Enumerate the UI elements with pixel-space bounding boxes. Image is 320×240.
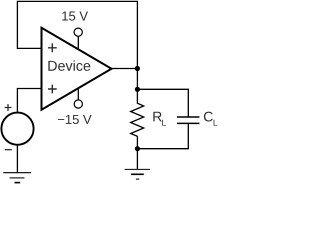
wire noninverting input	[17, 89, 41, 113]
wire capacitor to node C	[137, 124, 188, 149]
ground left	[3, 173, 31, 183]
wire node B to capacitor	[137, 89, 188, 116]
capacitor CL	[177, 112, 217, 126]
pin + top input label	[48, 43, 57, 52]
wire node C to ground	[136, 149, 138, 170]
op-amp Device	[42, 28, 112, 110]
ground right	[125, 169, 150, 179]
node A output junction	[135, 66, 140, 71]
wire output	[112, 68, 138, 70]
pin + bottom input label	[48, 85, 57, 94]
power +15V terminal	[62, 12, 88, 49]
power -15V terminal	[58, 88, 92, 124]
wire node A to node B	[136, 69, 138, 90]
voltage source VIN	[1, 104, 33, 150]
node B load junction	[135, 87, 140, 92]
wire source to ground	[16, 145, 18, 173]
resistor RL	[131, 89, 166, 148]
wire feedback top	[17, 1, 137, 68]
node C bottom junction	[135, 146, 140, 151]
